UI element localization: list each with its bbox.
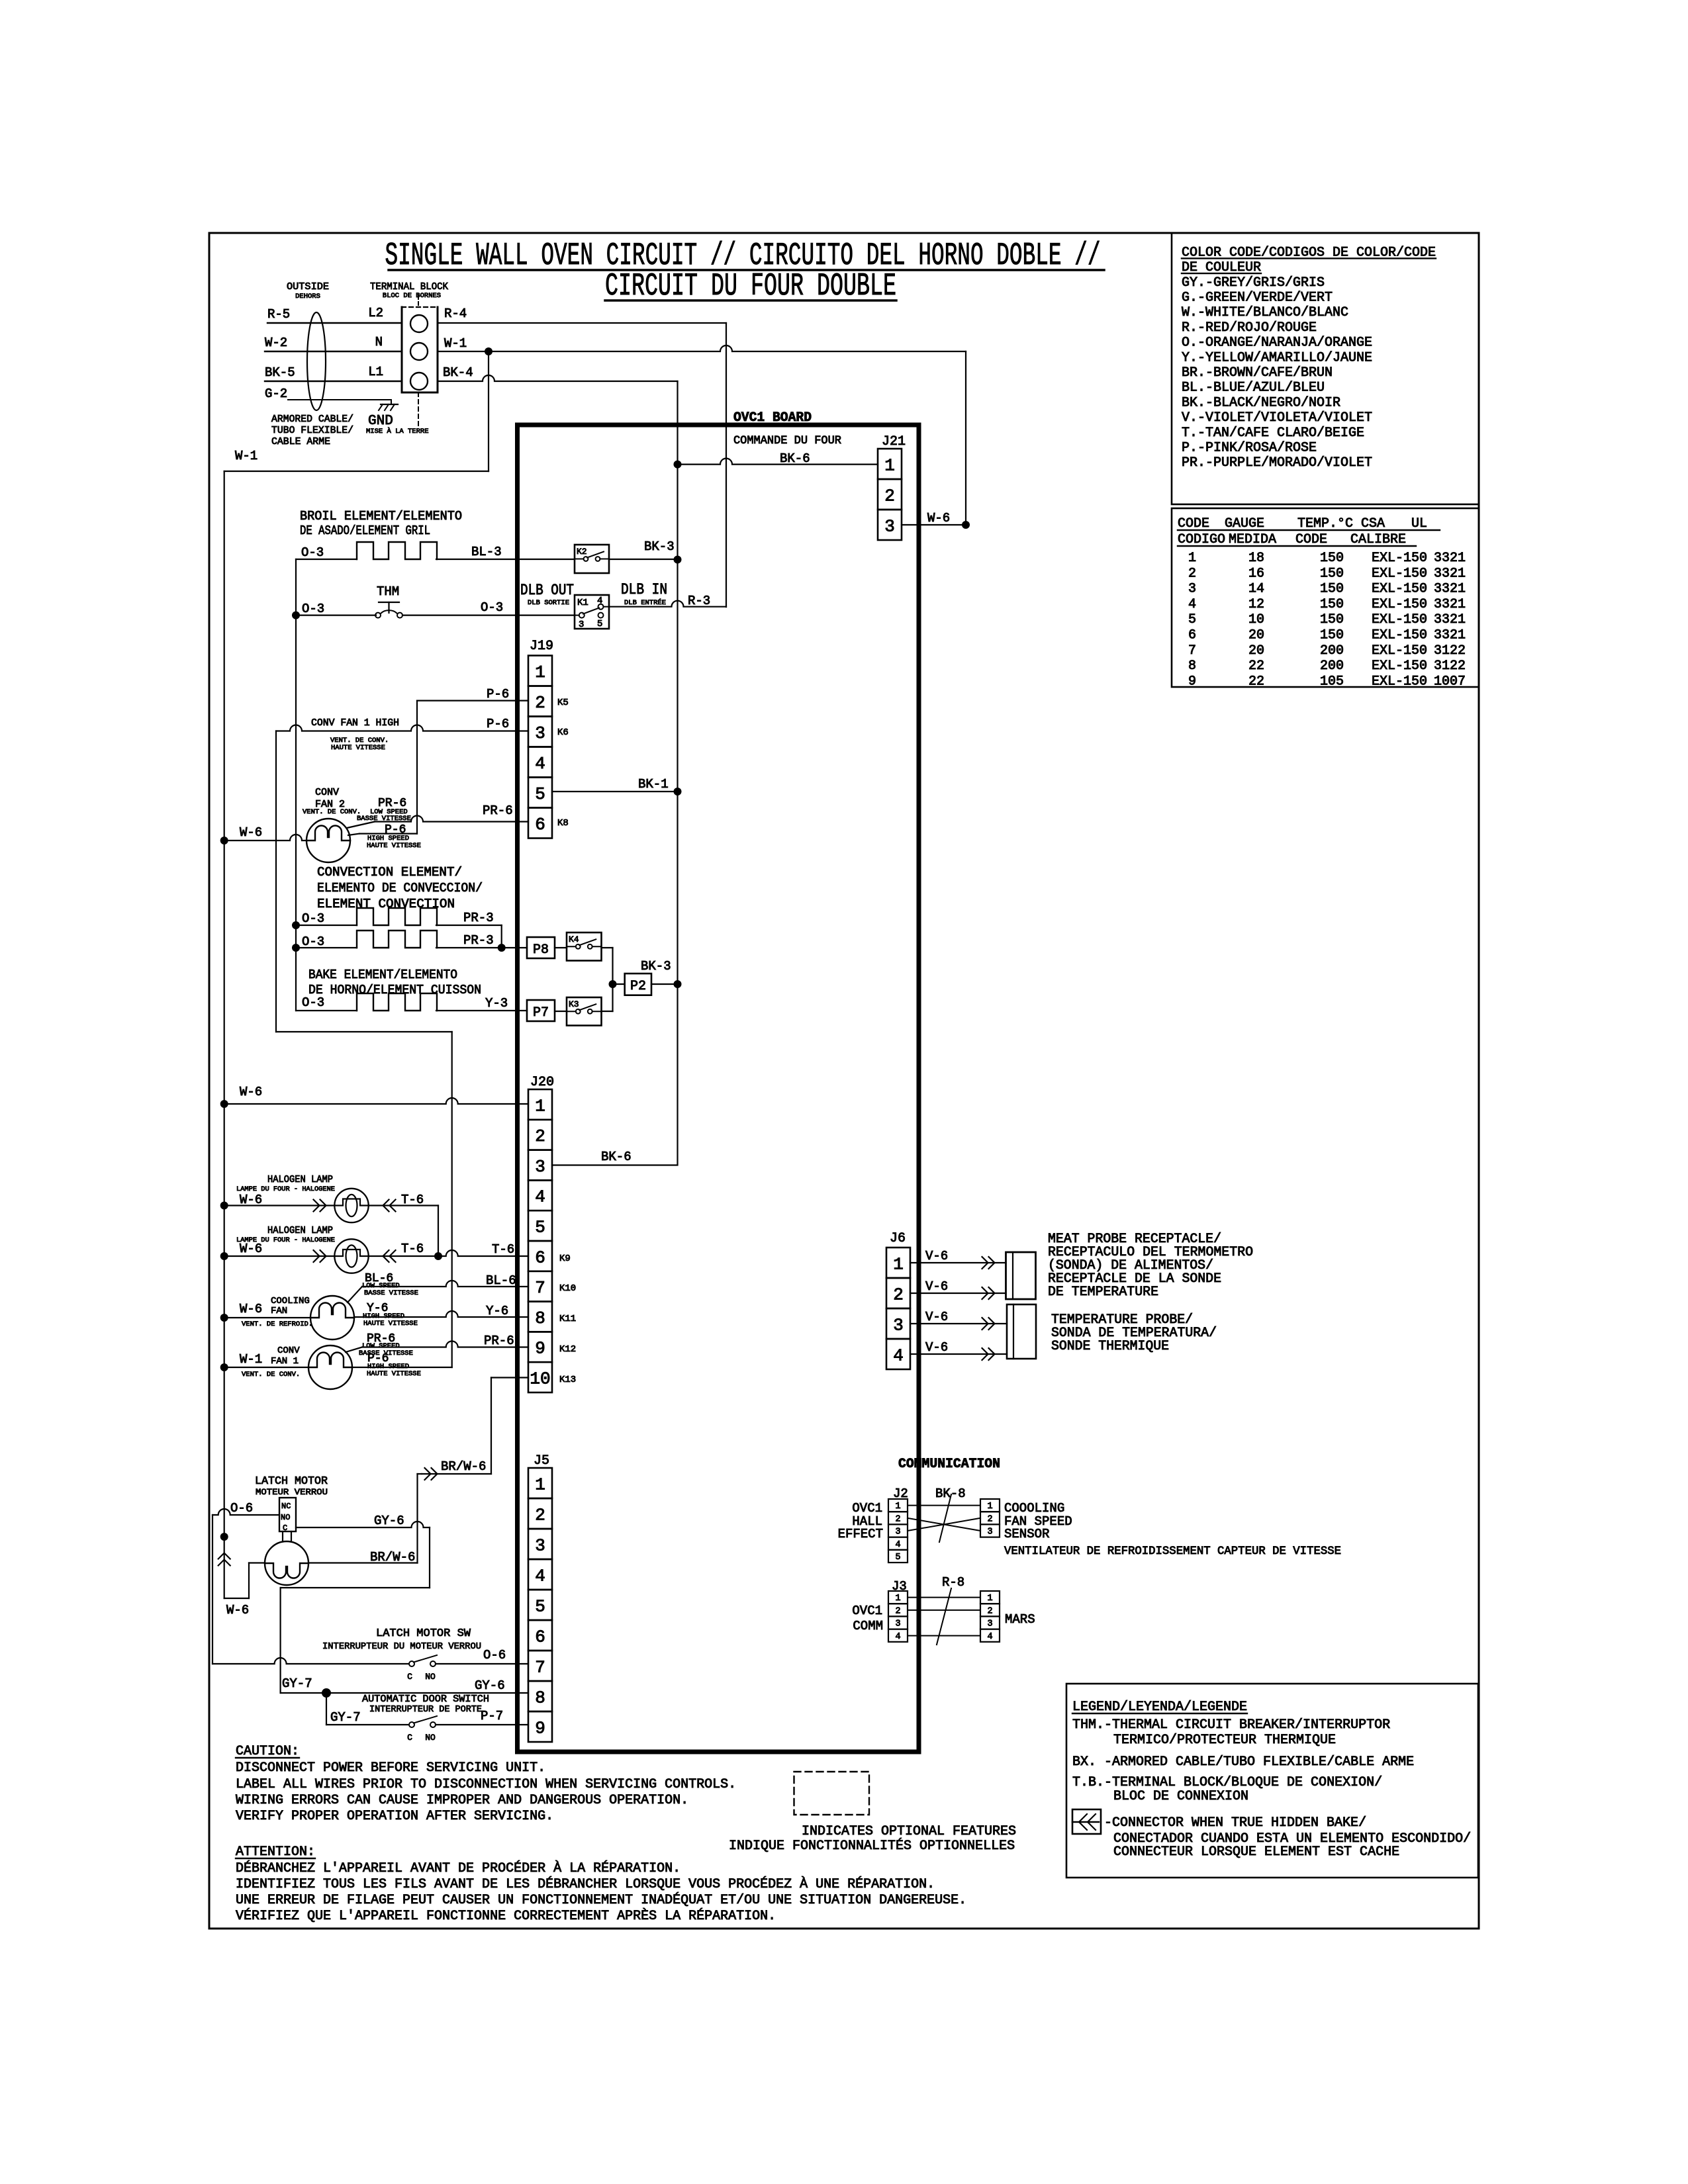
svg-text:6: 6	[535, 1248, 545, 1267]
svg-text:2: 2	[895, 1606, 900, 1616]
relay contact K3	[567, 997, 602, 1026]
svg-text:6: 6	[535, 1627, 545, 1647]
svg-text:200: 200	[1320, 659, 1344, 674]
svg-text:W-6: W-6	[927, 511, 950, 525]
svg-text:1: 1	[987, 1502, 992, 1512]
svg-text:3321: 3321	[1434, 582, 1466, 597]
svg-text:HALOGEN LAMP: HALOGEN LAMP	[267, 1225, 333, 1236]
optional features dashed box	[794, 1772, 870, 1815]
terminal block TB	[401, 307, 403, 392]
wire conv fan2 high speed	[348, 834, 359, 835]
svg-text:3: 3	[1188, 582, 1196, 597]
svg-text:3: 3	[987, 1619, 992, 1629]
svg-text:J6: J6	[890, 1231, 906, 1246]
svg-text:PR-6: PR-6	[483, 803, 513, 818]
terminal L1	[410, 373, 428, 390]
svg-text:BROIL ELEMENT/ELEMENTO: BROIL ELEMENT/ELEMENTO	[300, 509, 462, 523]
svg-text:GY-7: GY-7	[330, 1710, 361, 1725]
svg-text:HAUTE VITESSE: HAUTE VITESSE	[367, 1370, 421, 1378]
wire K4 to P2	[602, 947, 613, 948]
cable slash R-8	[937, 1588, 951, 1645]
svg-text:9: 9	[535, 1339, 545, 1359]
junction T-6	[434, 1252, 442, 1260]
svg-text:CONVECTION ELEMENT/: CONVECTION ELEMENT/	[317, 865, 462, 880]
svg-text:BR.-BROWN/CAFE/BRUN: BR.-BROWN/CAFE/BRUN	[1182, 365, 1333, 381]
svg-text:W-1: W-1	[240, 1352, 262, 1367]
svg-text:C: C	[407, 1733, 412, 1743]
svg-text:LATCH MOTOR SW: LATCH MOTOR SW	[376, 1627, 471, 1640]
wire W-1 drop to left bus	[488, 351, 489, 471]
svg-text:3: 3	[987, 1527, 992, 1537]
svg-text:BLOC DE CONNEXION: BLOC DE CONNEXION	[1113, 1789, 1248, 1804]
svg-text:COMMANDE DU FOUR: COMMANDE DU FOUR	[733, 434, 841, 447]
svg-text:9: 9	[1188, 674, 1196, 689]
svg-text:BK-1: BK-1	[638, 777, 669, 792]
svg-text:4: 4	[893, 1345, 904, 1365]
svg-text:4: 4	[535, 754, 545, 774]
svg-text:1: 1	[895, 1502, 900, 1512]
svg-text:SONDE THERMIQUE: SONDE THERMIQUE	[1051, 1339, 1169, 1354]
connector cooling fan speed sensor	[980, 1499, 1000, 1512]
O-3 bus vertical	[295, 559, 297, 1011]
svg-text:150: 150	[1320, 551, 1344, 566]
svg-text:2: 2	[893, 1285, 904, 1304]
connector MARS	[980, 1591, 1000, 1604]
svg-text:R.-RED/ROJO/ROUGE: R.-RED/ROJO/ROUGE	[1182, 320, 1317, 336]
motor latch	[265, 1541, 308, 1585]
svg-text:P-6: P-6	[487, 687, 509, 702]
svg-text:TERMINAL BLOCK: TERMINAL BLOCK	[370, 281, 448, 293]
svg-text:V.-VIOLET/VIOLETA/VIOLET: V.-VIOLET/VIOLETA/VIOLET	[1182, 410, 1372, 426]
svg-text:BK-6: BK-6	[601, 1150, 632, 1164]
svg-text:1: 1	[1188, 551, 1196, 566]
svg-text:3: 3	[895, 1527, 900, 1537]
svg-text:1: 1	[987, 1594, 992, 1604]
svg-text:C: C	[407, 1672, 412, 1682]
svg-text:CODIGO: CODIGO	[1178, 532, 1225, 547]
svg-text:COOOLING: COOOLING	[1004, 1501, 1064, 1516]
svg-text:3321: 3321	[1434, 551, 1466, 566]
svg-text:10: 10	[530, 1369, 550, 1388]
svg-text:1007: 1007	[1434, 674, 1466, 689]
svg-text:VENT. DE CONV.: VENT. DE CONV.	[242, 1371, 300, 1379]
wire W-6 to halogen lamp 2	[220, 1252, 228, 1260]
svg-text:N: N	[375, 335, 383, 349]
svg-text:BK-5: BK-5	[265, 365, 295, 380]
svg-text:THM: THM	[377, 584, 399, 599]
svg-text:3: 3	[884, 516, 895, 536]
svg-text:EXL-150: EXL-150	[1372, 597, 1427, 612]
svg-text:P-7: P-7	[481, 1709, 503, 1723]
svg-text:K11: K11	[559, 1314, 576, 1324]
svg-text:NC: NC	[281, 1502, 291, 1511]
wire W-1 to conv fan1	[220, 1363, 228, 1371]
legend connector symbol	[1072, 1809, 1101, 1834]
svg-text:EXL-150: EXL-150	[1372, 612, 1427, 627]
terminal L2	[410, 315, 428, 332]
svg-text:ATTENTION:: ATTENTION:	[236, 1844, 315, 1860]
svg-text:1: 1	[535, 1096, 545, 1116]
latch motor switch box NC NO C	[279, 1498, 296, 1531]
svg-text:1: 1	[535, 1475, 545, 1494]
OVC1 board outline	[518, 425, 919, 1752]
wire gauge table	[1172, 508, 1479, 687]
svg-text:10: 10	[1248, 612, 1264, 627]
wires J2 to fan sensor	[908, 1505, 980, 1506]
svg-text:SENSOR: SENSOR	[1004, 1527, 1049, 1541]
svg-text:DE ASADO/ELEMENT GRIL: DE ASADO/ELEMENT GRIL	[300, 523, 430, 538]
svg-text:EXL-150: EXL-150	[1372, 643, 1427, 659]
svg-text:HAUTE VITESSE: HAUTE VITESSE	[331, 744, 385, 752]
svg-text:12: 12	[1248, 597, 1264, 612]
svg-text:WIRING ERRORS CAN CAUSE IMPROP: WIRING ERRORS CAN CAUSE IMPROPER AND DAN…	[236, 1793, 688, 1808]
wire W-6 to halogen lamp 1	[220, 1202, 228, 1210]
relay contact K2	[575, 545, 609, 573]
svg-text:7: 7	[535, 1657, 545, 1677]
svg-text:8: 8	[1188, 659, 1196, 674]
svg-text:CIRCUIT DU FOUR DOUBLE: CIRCUIT DU FOUR DOUBLE	[605, 269, 896, 304]
svg-text:R-5: R-5	[267, 307, 290, 322]
svg-text:O-3: O-3	[302, 995, 324, 1010]
page border frame	[209, 233, 1479, 1929]
svg-text:DLB SORTIE: DLB SORTIE	[528, 599, 569, 607]
svg-text:O-3: O-3	[481, 600, 503, 615]
svg-text:PR-6: PR-6	[484, 1334, 514, 1348]
svg-text:ELEMENTO DE CONVECCION/: ELEMENTO DE CONVECCION/	[317, 881, 483, 895]
svg-text:INDICATES OPTIONAL FEATURES: INDICATES OPTIONAL FEATURES	[802, 1824, 1016, 1839]
svg-text:150: 150	[1320, 566, 1344, 581]
svg-text:COMMUNICATION: COMMUNICATION	[898, 1457, 1000, 1472]
svg-text:R-8: R-8	[942, 1575, 964, 1590]
svg-text:VENT. DE REFROID.: VENT. DE REFROID.	[242, 1320, 312, 1328]
halogen lamp 2	[334, 1239, 368, 1273]
svg-text:DLB ENTRÉE: DLB ENTRÉE	[624, 598, 666, 607]
connector chevrons on W-6 bus	[218, 1553, 230, 1559]
svg-text:CSA: CSA	[1361, 516, 1385, 531]
svg-text:O-3: O-3	[302, 602, 324, 616]
svg-text:NO: NO	[281, 1513, 290, 1522]
color code box	[1172, 233, 1479, 504]
svg-text:EXL-150: EXL-150	[1372, 659, 1427, 674]
switch automatic door	[326, 1693, 327, 1725]
terminal P7	[527, 1000, 555, 1021]
svg-text:3321: 3321	[1434, 597, 1466, 612]
junction GY-7	[322, 1688, 331, 1698]
svg-text:6: 6	[1188, 628, 1196, 643]
svg-text:5: 5	[1188, 612, 1196, 627]
svg-text:W-6: W-6	[240, 1242, 262, 1256]
svg-text:IDENTIFIEZ TOUS LES FILS AVANT: IDENTIFIEZ TOUS LES FILS AVANT DE LES DÉ…	[236, 1876, 935, 1892]
svg-text:7: 7	[535, 1278, 545, 1298]
legend box	[1066, 1684, 1478, 1878]
svg-text:6: 6	[535, 815, 545, 835]
svg-text:CONV FAN 1 HIGH: CONV FAN 1 HIGH	[311, 717, 399, 729]
svg-text:150: 150	[1320, 612, 1344, 627]
svg-text:GY-6: GY-6	[475, 1678, 505, 1693]
svg-text:O-3: O-3	[301, 545, 324, 560]
svg-text:CONV: CONV	[277, 1345, 300, 1356]
svg-text:MARS: MARS	[1005, 1612, 1035, 1627]
armored cable ellipse	[307, 312, 326, 410]
svg-text:3321: 3321	[1434, 612, 1466, 627]
svg-text:DÉBRANCHEZ L'APPAREIL AVANT DE: DÉBRANCHEZ L'APPAREIL AVANT DE PROCÉDER …	[236, 1860, 680, 1876]
svg-text:OVC1: OVC1	[852, 1501, 882, 1516]
svg-text:3: 3	[535, 1157, 545, 1177]
terminal P8	[527, 937, 555, 958]
svg-text:CAUTION:: CAUTION:	[236, 1744, 299, 1759]
svg-text:9: 9	[535, 1718, 545, 1738]
svg-text:O.-ORANGE/NARANJA/ORANGE: O.-ORANGE/NARANJA/ORANGE	[1182, 336, 1372, 351]
svg-text:EXL-150: EXL-150	[1372, 628, 1427, 643]
junction W-6/W-1	[962, 521, 970, 529]
svg-text:150: 150	[1320, 628, 1344, 643]
junction BK-3	[674, 556, 682, 564]
svg-text:200: 200	[1320, 643, 1344, 659]
svg-text:TUBO FLEXIBLE/: TUBO FLEXIBLE/	[271, 425, 353, 436]
svg-text:CODE: CODE	[1295, 532, 1327, 547]
svg-text:INTERRUPTEUR DU MOTEUR VERROU: INTERRUPTEUR DU MOTEUR VERROU	[322, 1641, 481, 1652]
svg-text:105: 105	[1320, 674, 1344, 689]
svg-text:J5: J5	[534, 1453, 549, 1469]
svg-text:LATCH MOTOR: LATCH MOTOR	[255, 1475, 328, 1488]
svg-text:G-2: G-2	[265, 387, 287, 401]
svg-text:K2: K2	[577, 547, 587, 557]
svg-text:J19: J19	[530, 639, 553, 654]
motor conv fan 2	[306, 819, 350, 862]
svg-text:UNE ERREUR DE FILAGE PEUT CAUS: UNE ERREUR DE FILAGE PEUT CAUSER UN FONC…	[236, 1892, 966, 1908]
svg-text:DISCONNECT POWER BEFORE SERVIC: DISCONNECT POWER BEFORE SERVICING UNIT.	[236, 1760, 545, 1776]
svg-text:4: 4	[895, 1540, 900, 1550]
svg-text:LEGEND/LEYENDA/LEGENDE: LEGEND/LEYENDA/LEGENDE	[1072, 1700, 1247, 1715]
svg-text:150: 150	[1320, 582, 1344, 597]
svg-text:2: 2	[535, 1505, 545, 1525]
svg-text:HAUTE VITESSE: HAUTE VITESSE	[367, 842, 421, 850]
svg-text:UL: UL	[1411, 516, 1427, 531]
svg-text:K6: K6	[557, 727, 569, 738]
svg-text:K13: K13	[559, 1375, 576, 1385]
svg-text:Y-6: Y-6	[486, 1304, 508, 1318]
svg-text:O-6: O-6	[230, 1501, 253, 1516]
svg-text:J20: J20	[530, 1075, 554, 1090]
svg-text:-CONNECTOR WHEN TRUE HIDDEN BA: -CONNECTOR WHEN TRUE HIDDEN BAKE/	[1104, 1815, 1366, 1831]
svg-text:W-6: W-6	[240, 825, 262, 840]
svg-text:16: 16	[1248, 566, 1264, 581]
svg-text:V-6: V-6	[925, 1249, 948, 1263]
left bus W-6 vertical	[224, 471, 225, 1598]
svg-text:2: 2	[1188, 566, 1196, 581]
svg-text:EXL-150: EXL-150	[1372, 674, 1427, 689]
svg-text:5: 5	[535, 1596, 545, 1616]
svg-text:EXL-150: EXL-150	[1372, 551, 1427, 566]
svg-text:3122: 3122	[1434, 659, 1466, 674]
svg-text:K8: K8	[557, 818, 569, 829]
svg-text:DLB IN: DLB IN	[621, 581, 667, 598]
svg-text:J21: J21	[882, 434, 906, 449]
svg-text:OVC1: OVC1	[852, 1604, 882, 1618]
svg-text:150: 150	[1320, 597, 1344, 612]
svg-text:P-6: P-6	[487, 717, 509, 731]
svg-text:22: 22	[1248, 674, 1264, 689]
svg-text:VERIFY PROPER OPERATION AFTER: VERIFY PROPER OPERATION AFTER SERVICING.	[236, 1809, 553, 1824]
svg-text:3: 3	[579, 619, 584, 630]
svg-text:CONV: CONV	[315, 787, 339, 798]
svg-text:OVC1 BOARD: OVC1 BOARD	[733, 410, 812, 426]
svg-text:2: 2	[535, 693, 545, 713]
svg-text:COMM: COMM	[853, 1619, 883, 1633]
svg-text:5: 5	[895, 1553, 900, 1563]
svg-text:GY-6: GY-6	[374, 1514, 404, 1528]
svg-text:3321: 3321	[1434, 628, 1466, 643]
svg-text:ARMORED CABLE/: ARMORED CABLE/	[271, 414, 353, 425]
svg-text:5: 5	[597, 619, 602, 629]
svg-text:BAKE ELEMENT/ELEMENTO: BAKE ELEMENT/ELEMENTO	[308, 968, 457, 982]
svg-text:EFFECT: EFFECT	[838, 1527, 883, 1541]
wire W-6 to cooling fan	[220, 1314, 228, 1322]
svg-text:3: 3	[535, 723, 545, 743]
svg-text:5: 5	[535, 784, 545, 804]
svg-text:4: 4	[1188, 597, 1196, 612]
svg-text:G.-GREEN/VERDE/VERT: G.-GREEN/VERDE/VERT	[1182, 291, 1333, 306]
svg-text:CONNECTEUR LORSQUE ELEMENT EST: CONNECTEUR LORSQUE ELEMENT EST CACHE	[1113, 1844, 1399, 1860]
relay contact K4	[567, 933, 602, 961]
svg-text:DEHORS: DEHORS	[295, 293, 320, 300]
junction PR-3	[498, 944, 506, 952]
svg-text:R-4: R-4	[444, 306, 467, 321]
junction W-1	[485, 347, 492, 355]
svg-text:3: 3	[893, 1315, 904, 1335]
wire J20 pin10 BR/W-6	[491, 1377, 528, 1378]
svg-text:4: 4	[987, 1632, 992, 1642]
svg-text:V-6: V-6	[925, 1340, 948, 1355]
svg-text:Y.-YELLOW/AMARILLO/JAUNE: Y.-YELLOW/AMARILLO/JAUNE	[1182, 350, 1372, 365]
svg-text:LABEL ALL WIRES PRIOR TO DISCO: LABEL ALL WIRES PRIOR TO DISCONNECTION W…	[236, 1777, 736, 1792]
svg-text:3: 3	[895, 1619, 900, 1629]
svg-text:BL.-BLUE/AZUL/BLEU: BL.-BLUE/AZUL/BLEU	[1182, 381, 1325, 396]
svg-text:W-6: W-6	[226, 1603, 249, 1617]
svg-text:VÉRIFIEZ QUE L'APPAREIL FONCTI: VÉRIFIEZ QUE L'APPAREIL FONCTIONNE CORRE…	[236, 1908, 776, 1924]
svg-text:W-6: W-6	[240, 1302, 262, 1316]
svg-text:BK-4: BK-4	[443, 365, 473, 380]
svg-text:CABLE ARME: CABLE ARME	[271, 436, 330, 447]
svg-text:W-2: W-2	[265, 336, 287, 350]
svg-text:K5: K5	[557, 698, 569, 708]
svg-text:DE TEMPERATURE: DE TEMPERATURE	[1048, 1285, 1158, 1300]
temperature probe	[1007, 1304, 1036, 1359]
svg-text:8: 8	[535, 1308, 545, 1328]
svg-text:2: 2	[987, 1606, 992, 1616]
svg-text:P2: P2	[630, 979, 646, 994]
svg-text:3122: 3122	[1434, 643, 1466, 659]
svg-text:GY.-GREY/GRIS/GRIS: GY.-GREY/GRIS/GRIS	[1182, 275, 1325, 291]
svg-text:INDIQUE FONCTIONNALITÉS OPTION: INDIQUE FONCTIONNALITÉS OPTIONNELLES	[729, 1838, 1015, 1854]
svg-text:L2: L2	[368, 306, 383, 320]
svg-text:2: 2	[884, 486, 895, 506]
wires J3 to MARS	[908, 1597, 980, 1598]
svg-text:K4: K4	[569, 934, 579, 944]
svg-text:COOLING: COOLING	[271, 1296, 310, 1306]
svg-text:2: 2	[895, 1514, 900, 1524]
svg-text:T-6: T-6	[401, 1242, 424, 1256]
svg-text:20: 20	[1248, 628, 1264, 643]
svg-text:4: 4	[535, 1566, 545, 1586]
svg-text:BL-6: BL-6	[486, 1273, 516, 1288]
svg-text:V-6: V-6	[925, 1310, 948, 1324]
svg-text:BASSE VITESSE: BASSE VITESSE	[357, 815, 411, 823]
svg-text:K3: K3	[569, 999, 579, 1009]
svg-text:THM.-THERMAL CIRCUIT BREAKER/I: THM.-THERMAL CIRCUIT BREAKER/INTERRUPTOR	[1072, 1717, 1390, 1733]
svg-text:HAUTE VITESSE: HAUTE VITESSE	[363, 1320, 418, 1328]
svg-text:BL-3: BL-3	[471, 545, 502, 559]
svg-text:BR/W-6: BR/W-6	[441, 1459, 486, 1474]
svg-text:BK-3: BK-3	[641, 959, 671, 974]
svg-text:18: 18	[1248, 551, 1264, 566]
svg-text:1: 1	[895, 1594, 900, 1604]
svg-text:1: 1	[535, 662, 545, 682]
svg-text:V-6: V-6	[925, 1279, 948, 1294]
svg-text:PR.-PURPLE/MORADO/VIOLET: PR.-PURPLE/MORADO/VIOLET	[1182, 455, 1372, 471]
svg-text:BX. -ARMORED CABLE/TUBO FLEXIB: BX. -ARMORED CABLE/TUBO FLEXIBLE/CABLE A…	[1072, 1754, 1414, 1770]
svg-text:W.-WHITE/BLANCO/BLANC: W.-WHITE/BLANCO/BLANC	[1182, 305, 1348, 320]
svg-text:GND: GND	[368, 414, 393, 429]
terminal N	[410, 343, 428, 360]
svg-text:K12: K12	[559, 1344, 576, 1355]
motor cooling fan	[310, 1296, 354, 1340]
svg-text:DLB OUT: DLB OUT	[520, 582, 574, 599]
svg-text:20: 20	[1248, 643, 1264, 659]
svg-text:4: 4	[895, 1632, 900, 1642]
svg-text:5: 5	[535, 1217, 545, 1237]
svg-text:TERMICO/PROTECTEUR THERMIQUE: TERMICO/PROTECTEUR THERMIQUE	[1113, 1733, 1336, 1748]
svg-text:L1: L1	[368, 365, 383, 379]
svg-text:GY-7: GY-7	[282, 1676, 312, 1691]
svg-text:3: 3	[535, 1535, 545, 1555]
svg-text:K9: K9	[559, 1253, 571, 1264]
svg-text:W-6: W-6	[240, 1085, 262, 1099]
svg-text:MOTEUR VERROU: MOTEUR VERROU	[256, 1487, 328, 1497]
svg-text:3321: 3321	[1434, 566, 1466, 581]
junction BK-3 at P2	[674, 980, 682, 988]
svg-text:P.-PINK/ROSA/ROSE: P.-PINK/ROSA/ROSE	[1182, 441, 1317, 456]
svg-text:EXL-150: EXL-150	[1372, 582, 1427, 597]
svg-text:W-1: W-1	[444, 336, 467, 351]
svg-text:1: 1	[884, 455, 895, 475]
svg-text:2: 2	[987, 1514, 992, 1524]
ground symbol GND	[381, 404, 398, 405]
svg-text:INTERRUPTEUR DE PORTE: INTERRUPTEUR DE PORTE	[369, 1705, 482, 1715]
wire W-6 to latch motor	[224, 1598, 249, 1599]
svg-text:O-3: O-3	[302, 934, 324, 949]
svg-text:W-1: W-1	[235, 449, 258, 463]
svg-text:NO: NO	[425, 1733, 436, 1743]
motor conv fan 1	[308, 1345, 352, 1389]
svg-text:1: 1	[893, 1254, 904, 1274]
svg-text:EXL-150: EXL-150	[1372, 566, 1427, 581]
svg-text:BK.-BLACK/NEGRO/NOIR: BK.-BLACK/NEGRO/NOIR	[1182, 395, 1340, 410]
svg-text:AUTOMATIC DOOR SWITCH: AUTOMATIC DOOR SWITCH	[362, 1694, 489, 1705]
svg-text:HALOGEN LAMP: HALOGEN LAMP	[267, 1174, 333, 1185]
svg-text:8: 8	[535, 1688, 545, 1707]
svg-text:DE HORNO/ELEMENT CUISSON: DE HORNO/ELEMENT CUISSON	[308, 983, 481, 997]
svg-text:P8: P8	[533, 942, 549, 958]
svg-text:CALIBRE: CALIBRE	[1350, 532, 1406, 547]
svg-text:MEDIDA: MEDIDA	[1229, 532, 1276, 547]
svg-text:NO: NO	[425, 1672, 436, 1682]
cable slash BK-8	[939, 1494, 951, 1542]
svg-text:BLOC DE BORNES: BLOC DE BORNES	[383, 292, 441, 300]
svg-text:K1: K1	[577, 598, 588, 608]
svg-text:22: 22	[1248, 659, 1264, 674]
svg-text:ELEMENT CONVECTION: ELEMENT CONVECTION	[317, 897, 455, 911]
